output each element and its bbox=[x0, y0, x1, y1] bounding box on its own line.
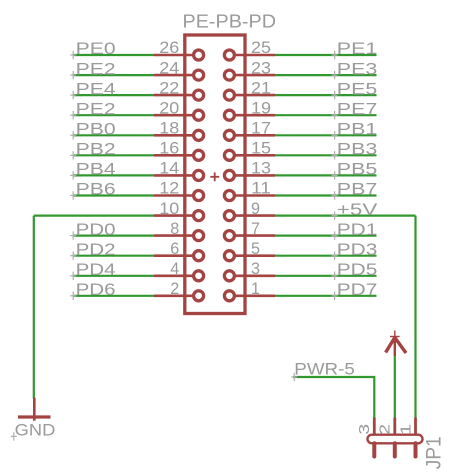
svg-text:PE2: PE2 bbox=[76, 59, 116, 78]
svg-text:25: 25 bbox=[251, 39, 271, 57]
svg-text:16: 16 bbox=[159, 140, 179, 158]
svg-text:26: 26 bbox=[159, 39, 179, 57]
svg-text:20: 20 bbox=[159, 99, 179, 117]
svg-text:21: 21 bbox=[251, 79, 271, 97]
svg-text:9: 9 bbox=[251, 200, 260, 218]
svg-text:2: 2 bbox=[170, 280, 179, 298]
svg-text:13: 13 bbox=[251, 160, 271, 178]
svg-text:PWR-5: PWR-5 bbox=[294, 361, 355, 379]
svg-text:22: 22 bbox=[159, 79, 179, 97]
svg-text:1: 1 bbox=[251, 280, 260, 298]
svg-text:PE7: PE7 bbox=[337, 99, 378, 118]
svg-text:PD6: PD6 bbox=[76, 280, 116, 299]
svg-text:3: 3 bbox=[251, 260, 260, 278]
svg-text:2: 2 bbox=[377, 424, 394, 435]
svg-text:PB7: PB7 bbox=[337, 180, 378, 199]
svg-text:11: 11 bbox=[251, 180, 271, 198]
svg-text:17: 17 bbox=[251, 119, 271, 137]
svg-text:PB0: PB0 bbox=[76, 119, 116, 138]
svg-text:PD0: PD0 bbox=[76, 220, 116, 239]
svg-text:10: 10 bbox=[159, 200, 179, 218]
svg-text:PE1: PE1 bbox=[337, 39, 378, 58]
svg-text:PB1: PB1 bbox=[337, 119, 378, 138]
svg-text:+5V: +5V bbox=[337, 200, 378, 219]
svg-text:24: 24 bbox=[159, 59, 179, 77]
svg-text:7: 7 bbox=[251, 220, 260, 238]
svg-text:15: 15 bbox=[251, 140, 271, 158]
svg-text:8: 8 bbox=[170, 220, 179, 238]
svg-text:4: 4 bbox=[170, 260, 179, 278]
svg-text:GND: GND bbox=[15, 421, 56, 440]
svg-text:PD1: PD1 bbox=[337, 220, 378, 239]
svg-text:14: 14 bbox=[159, 160, 179, 178]
svg-text:PE0: PE0 bbox=[76, 39, 116, 58]
svg-text:19: 19 bbox=[251, 99, 271, 117]
svg-text:PD5: PD5 bbox=[337, 260, 378, 279]
svg-text:PD7: PD7 bbox=[337, 280, 378, 299]
svg-text:PD2: PD2 bbox=[76, 240, 116, 259]
svg-text:12: 12 bbox=[159, 180, 179, 198]
svg-text:PB6: PB6 bbox=[76, 180, 116, 199]
svg-text:PB4: PB4 bbox=[76, 160, 116, 179]
svg-text:JP1: JP1 bbox=[423, 436, 446, 469]
svg-text:5: 5 bbox=[251, 240, 260, 258]
svg-text:PD4: PD4 bbox=[76, 260, 116, 279]
svg-text:PB5: PB5 bbox=[337, 160, 378, 179]
svg-text:PE4: PE4 bbox=[76, 79, 116, 98]
svg-text:6: 6 bbox=[170, 240, 179, 258]
svg-text:PE-PB-PD: PE-PB-PD bbox=[183, 11, 277, 32]
svg-text:PB3: PB3 bbox=[337, 140, 378, 159]
svg-text:23: 23 bbox=[251, 59, 271, 77]
svg-text:PB2: PB2 bbox=[76, 140, 116, 159]
svg-text:PD3: PD3 bbox=[337, 240, 378, 259]
svg-text:PE3: PE3 bbox=[337, 59, 378, 78]
svg-text:3: 3 bbox=[356, 424, 373, 435]
svg-text:PE2: PE2 bbox=[76, 99, 116, 118]
svg-text:PE5: PE5 bbox=[337, 79, 378, 98]
svg-text:18: 18 bbox=[159, 119, 179, 137]
svg-text:1: 1 bbox=[397, 424, 414, 435]
